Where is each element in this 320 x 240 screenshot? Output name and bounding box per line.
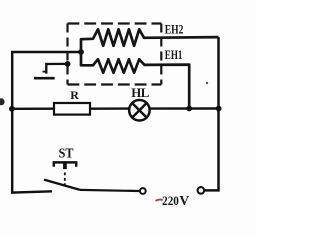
label ~220V bbox=[156, 200, 163, 201]
switch ST blade bbox=[44, 180, 80, 190]
switch ST linkage dashed bbox=[64, 173, 66, 187]
node junction dot EH1 bbox=[186, 106, 192, 112]
svg-text:ST: ST bbox=[59, 146, 74, 161]
svg-text:R: R bbox=[70, 88, 79, 102]
svg-text:HL: HL bbox=[131, 86, 149, 100]
resistor EH2 heating element bbox=[81, 29, 219, 52]
svg-text:220: 220 bbox=[162, 194, 179, 208]
terminal right bbox=[198, 187, 205, 194]
wire left rail with top and bottom horizontals bbox=[12, 52, 81, 193]
wire blade to left terminal bbox=[80, 190, 139, 191]
node junction dot right rail bbox=[216, 106, 222, 112]
thermostat moving contact tick bbox=[43, 71, 47, 73]
terminal left bbox=[140, 188, 146, 194]
node terminal dot on box edge bbox=[65, 61, 71, 67]
scan blob left edge bbox=[0, 98, 5, 105]
node junction dot left rail bbox=[9, 106, 15, 112]
scan speckle bbox=[206, 82, 208, 84]
svg-text:EH2: EH2 bbox=[165, 23, 184, 37]
wire lamp to right junctions bbox=[150, 107, 219, 109]
svg-text:V: V bbox=[179, 193, 189, 208]
wire R to lamp bbox=[90, 107, 129, 109]
switch ST actuator bracket bbox=[54, 162, 76, 166]
wire main middle row bbox=[12, 107, 54, 110]
resistor EH1 heating element bbox=[81, 52, 189, 109]
switch ST actuator stub bbox=[63, 163, 67, 169]
node junction dot inside box bbox=[78, 49, 84, 55]
thermostat contact wire bbox=[46, 64, 67, 74]
heater dashed box bbox=[68, 24, 162, 85]
resistor R bbox=[54, 103, 90, 115]
lamp HL bbox=[129, 100, 150, 121]
thermostat plate bbox=[34, 77, 55, 80]
wire right rail bbox=[205, 37, 219, 190]
svg-text:EH1: EH1 bbox=[165, 48, 183, 62]
